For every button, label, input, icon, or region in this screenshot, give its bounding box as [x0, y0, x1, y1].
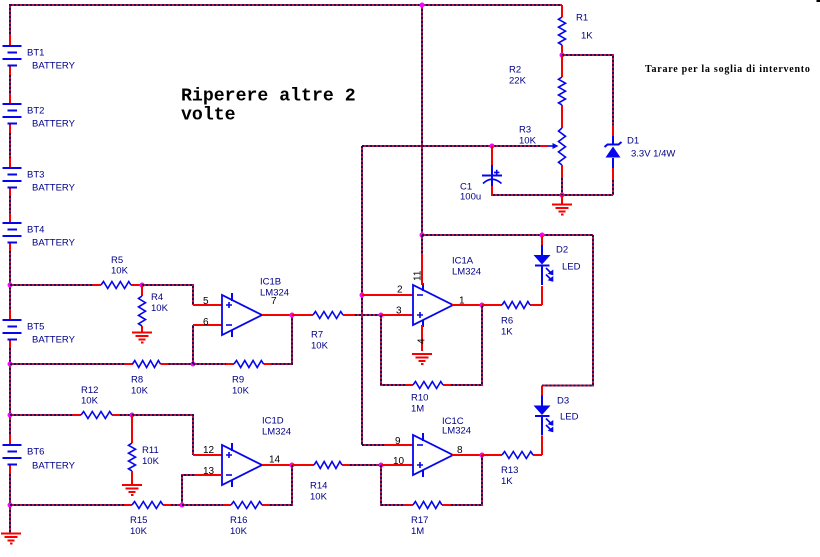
svg-text:D1: D1	[627, 136, 639, 147]
svg-text:1K: 1K	[581, 31, 593, 42]
svg-text:R15: R15	[130, 515, 147, 526]
text riperere note	[181, 87, 356, 126]
pin 12 label	[203, 445, 215, 456]
resistor R13	[482, 452, 542, 488]
svg-text:LM324: LM324	[442, 426, 471, 437]
svg-text:22K: 22K	[509, 76, 527, 87]
svg-text:10K: 10K	[230, 526, 248, 537]
resistor R5	[93, 255, 142, 289]
ground divider	[552, 195, 572, 215]
svg-text:R4: R4	[151, 292, 163, 303]
resistor R4	[139, 285, 169, 332]
diode D3 LED	[534, 386, 579, 436]
svg-text:1M: 1M	[411, 404, 424, 415]
wire V+ rail	[422, 234, 593, 236]
svg-text:LED: LED	[560, 412, 579, 423]
resistor R12	[81, 385, 112, 419]
svg-text:R5: R5	[111, 255, 123, 266]
svg-text:BATTERY: BATTERY	[32, 119, 76, 130]
node left rail junctions	[8, 283, 13, 508]
svg-text:1K: 1K	[501, 476, 513, 487]
svg-text:10K: 10K	[151, 303, 169, 314]
op-amp IC1B	[222, 277, 289, 338]
resistor R8	[131, 361, 160, 397]
svg-text:3: 3	[396, 306, 402, 317]
node R5-R4 junction	[140, 283, 145, 288]
svg-text:10K: 10K	[81, 396, 99, 407]
battery pin stubs	[9, 36, 11, 474]
top-right corner mark	[817, 0, 820, 2]
svg-text:4: 4	[417, 338, 428, 344]
svg-text:BATTERY: BATTERY	[32, 61, 76, 72]
svg-text:BT5: BT5	[27, 322, 44, 333]
svg-text:BT3: BT3	[27, 170, 44, 181]
node V+ rail junction	[420, 233, 425, 238]
svg-text:R10: R10	[411, 393, 428, 404]
node pin8 junction	[480, 453, 485, 458]
svg-text:R12: R12	[81, 385, 98, 396]
svg-text:R6: R6	[501, 316, 513, 327]
pin 1 output	[452, 296, 482, 307]
svg-text:R8: R8	[131, 375, 143, 386]
pin 4 wire	[417, 325, 428, 351]
svg-text:IC1B: IC1B	[260, 277, 281, 288]
svg-text:10K: 10K	[232, 386, 250, 397]
node pin3 junction	[379, 313, 384, 318]
svg-text:R2: R2	[509, 65, 521, 76]
battery BT3	[3, 168, 76, 194]
resistor R1	[559, 5, 594, 55]
svg-text:BATTERY: BATTERY	[32, 335, 76, 346]
wire top rail	[10, 4, 562, 6]
svg-text:R3: R3	[519, 125, 531, 136]
pin 14 output	[262, 455, 292, 466]
svg-text:14: 14	[269, 455, 281, 466]
svg-text:10: 10	[393, 456, 405, 467]
battery BT6	[3, 445, 76, 472]
svg-text:2: 2	[397, 285, 403, 296]
node C1 top junction	[490, 144, 495, 149]
pin 5 label	[203, 296, 209, 307]
resistor R17	[411, 502, 442, 538]
svg-text:BT1: BT1	[27, 48, 44, 59]
svg-text:5: 5	[203, 296, 209, 307]
resistor R9	[193, 361, 272, 397]
ground IC1A pin4	[412, 354, 432, 364]
svg-text:BATTERY: BATTERY	[32, 461, 76, 472]
svg-text:R1: R1	[576, 13, 588, 24]
resistor R14	[292, 462, 381, 503]
svg-text:1: 1	[459, 296, 465, 307]
op-amp IC1C	[413, 416, 471, 477]
svg-text:10K: 10K	[519, 136, 537, 147]
wire R10 loop	[381, 305, 482, 385]
wire R13 to D3	[541, 436, 543, 455]
svg-text:BT4: BT4	[27, 225, 44, 236]
svg-text:1M: 1M	[411, 526, 424, 537]
pin 6 label	[203, 317, 209, 328]
svg-text:10K: 10K	[131, 386, 149, 397]
svg-text:12: 12	[203, 445, 215, 456]
node pin6 junction	[191, 362, 196, 367]
pin 13 riser	[182, 466, 222, 505]
node D2 top junction	[540, 233, 545, 238]
svg-text:8: 8	[457, 445, 463, 456]
text tarare note	[645, 64, 811, 75]
svg-text:R11: R11	[142, 445, 159, 456]
node R3 bottom junction	[560, 193, 565, 198]
node R12-R11 junction	[130, 413, 135, 418]
pin 11 wire	[413, 235, 424, 285]
battery BT5	[3, 320, 76, 346]
node pin14 junction	[290, 463, 295, 468]
pin 8 output	[452, 445, 482, 456]
diode D1 zener	[605, 125, 676, 195]
wire row B	[10, 363, 169, 365]
node pin7 junction	[290, 313, 295, 318]
svg-text:10K: 10K	[111, 266, 129, 277]
wire V+ vertical	[421, 5, 423, 235]
svg-text:100u: 100u	[460, 192, 481, 203]
wire reference row	[362, 145, 547, 147]
svg-text:7: 7	[271, 296, 277, 307]
svg-text:D3: D3	[557, 396, 569, 407]
node pin13 junction	[180, 503, 185, 508]
wire reference vertical	[361, 146, 363, 445]
svg-text:R7: R7	[311, 330, 323, 341]
svg-text:11: 11	[413, 270, 424, 281]
diode D2 LED	[534, 235, 581, 285]
wire R9 to pin7 riser	[272, 315, 293, 364]
node below R1	[560, 53, 565, 58]
wire left battery rail	[9, 4, 11, 533]
svg-text:R14: R14	[310, 481, 327, 492]
ground R4	[132, 333, 152, 343]
pin 7 output	[262, 296, 292, 315]
wire R17 loop	[381, 455, 482, 505]
wire R1 junction to D1 branch	[562, 55, 613, 125]
svg-text:D2: D2	[556, 245, 568, 256]
node pin2 junction	[360, 293, 365, 298]
op-amp IC1D	[222, 416, 291, 488]
resistor R11	[129, 415, 160, 484]
svg-text:13: 13	[203, 466, 215, 477]
wire R8 to junction	[169, 363, 194, 365]
node pin10 junction	[379, 463, 384, 468]
node V+ top	[420, 3, 425, 8]
battery BT4	[3, 223, 76, 249]
svg-text:BT6: BT6	[27, 447, 44, 458]
svg-text:R9: R9	[232, 375, 244, 386]
wire row G	[10, 504, 171, 506]
wire junction to R16	[182, 504, 270, 506]
svg-text:LM324: LM324	[452, 267, 481, 278]
resistor R3 potentiometer	[519, 125, 566, 196]
resistor R7	[292, 312, 381, 352]
svg-text:BATTERY: BATTERY	[32, 238, 76, 249]
battery BT1	[3, 46, 76, 72]
wire pin6 riser	[193, 325, 222, 364]
svg-text:volte: volte	[181, 106, 236, 126]
wire R5 junction to pin5	[142, 285, 222, 305]
svg-text:10K: 10K	[310, 492, 328, 503]
resistor R6	[482, 302, 542, 338]
pin 9 wire	[362, 436, 413, 447]
svg-text:9: 9	[395, 436, 401, 447]
svg-text:BATTERY: BATTERY	[32, 183, 76, 194]
svg-text:LED: LED	[562, 262, 581, 273]
svg-text:10K: 10K	[142, 456, 160, 467]
wire bottom of divider	[492, 184, 613, 195]
wire rail to D3	[542, 235, 593, 386]
svg-text:10K: 10K	[311, 341, 329, 352]
svg-text:6: 6	[203, 317, 209, 328]
svg-text:3.3V 1/4W: 3.3V 1/4W	[631, 149, 675, 160]
wire R16 riser	[270, 465, 292, 505]
resistor R2	[509, 55, 566, 128]
ground R11	[122, 485, 142, 495]
svg-text:LM324: LM324	[262, 427, 291, 438]
svg-text:IC1D: IC1D	[262, 416, 284, 427]
svg-text:1K: 1K	[501, 327, 513, 338]
svg-text:IC1A: IC1A	[452, 256, 474, 267]
wire row F	[10, 414, 120, 416]
wire R12 junction to pin12	[132, 415, 222, 455]
pin 2 wire	[362, 285, 413, 296]
svg-text:Tarare per la soglia di interv: Tarare per la soglia di intervento	[645, 64, 811, 75]
pin 10 wire	[381, 456, 413, 467]
wire row A to R5	[10, 284, 93, 286]
svg-text:10K: 10K	[130, 526, 148, 537]
op-amp IC1A	[413, 256, 481, 328]
svg-text:R16: R16	[230, 515, 247, 526]
ground bottom-left	[1, 534, 21, 544]
resistor R10	[411, 382, 443, 415]
capacitor C1	[460, 146, 502, 203]
svg-text:BT2: BT2	[27, 106, 44, 117]
wire R12 to junction	[120, 414, 132, 416]
wire R15 to junction	[171, 504, 182, 506]
wire R6 to D2	[541, 286, 543, 305]
pin 3 wire	[381, 306, 413, 317]
svg-text:R13: R13	[501, 465, 518, 476]
resistor R16	[230, 502, 262, 538]
svg-text:Riperere altre 2: Riperere altre 2	[181, 87, 356, 107]
battery BT2	[3, 104, 76, 130]
resistor R15	[130, 502, 163, 538]
node pin1 junction	[480, 303, 485, 308]
svg-text:R17: R17	[411, 515, 428, 526]
